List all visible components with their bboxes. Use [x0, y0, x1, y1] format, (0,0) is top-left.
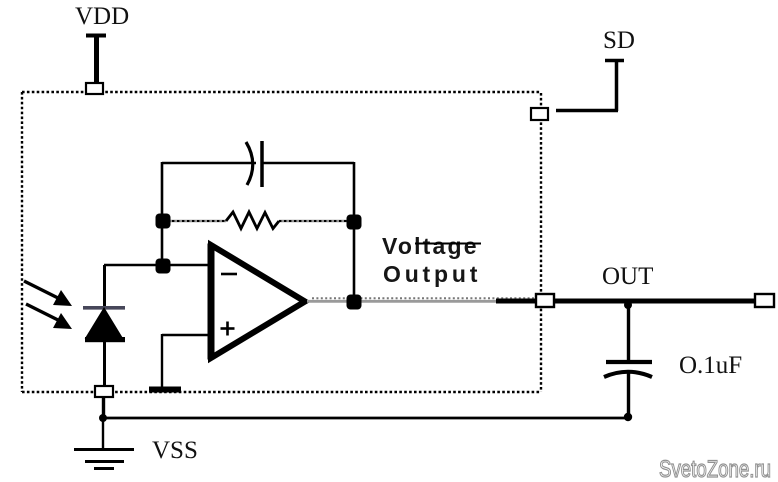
svg-text:SD: SD: [603, 27, 635, 54]
svg-text:OUT: OUT: [602, 263, 653, 290]
svg-text:SvetoZone.ru: SvetoZone.ru: [659, 456, 771, 482]
svg-text:Voltage: Voltage: [382, 233, 479, 259]
svg-text:VSS: VSS: [152, 437, 198, 464]
svg-text:VDD: VDD: [75, 3, 129, 30]
svg-text:Output: Output: [383, 261, 481, 287]
svg-text:O.1uF: O.1uF: [679, 352, 742, 379]
